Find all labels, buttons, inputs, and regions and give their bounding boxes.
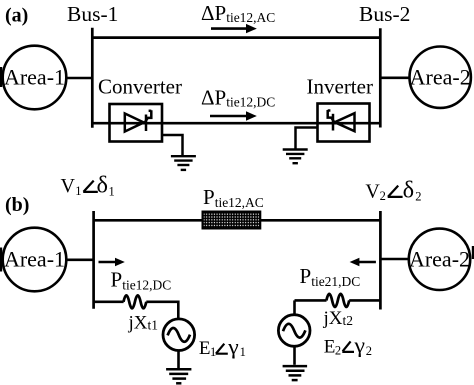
svg-text:Bus-2: Bus-2	[359, 2, 410, 26]
wire DC branch left (b)	[94, 300, 124, 303]
svg-text:1: 1	[240, 345, 246, 359]
edge tick left (a)	[0, 67, 2, 87]
inverter box	[318, 104, 370, 142]
AC source E2	[278, 315, 310, 347]
svg-text:γ: γ	[227, 334, 239, 359]
inductor jXt1	[124, 295, 147, 308]
svg-text:Area-1: Area-1	[4, 247, 65, 272]
arrow P tie21,DC	[350, 258, 376, 267]
AC source E1	[163, 319, 195, 351]
svg-text:1: 1	[75, 184, 81, 198]
ground E2	[283, 366, 308, 380]
wire DC branch right (b)	[295, 299, 327, 302]
svg-text:Bus-1: Bus-1	[67, 2, 118, 26]
svg-text:Inverter: Inverter	[307, 75, 373, 99]
wire inductor to E1	[146, 302, 178, 319]
generator Area-2 (b)	[409, 229, 470, 290]
arrow DC power flow (a)	[210, 111, 257, 120]
wire Area-1 to Bus-1 (a)	[66, 77, 93, 80]
edge tick right (b)	[472, 246, 474, 259]
svg-text:V: V	[365, 180, 380, 202]
svg-text:Area-1: Area-1	[4, 65, 65, 90]
bus bar V1 (b)	[92, 211, 95, 309]
generator Area-1 (b)	[3, 228, 67, 292]
svg-text:V: V	[61, 175, 76, 197]
svg-text:E: E	[324, 336, 336, 357]
wire DC link (a)	[92, 122, 380, 125]
generator Area-2 (a)	[410, 46, 471, 107]
wire AC tie line (b)	[94, 219, 381, 222]
bus bar Bus-2	[379, 28, 382, 127]
generator Area-1 (a)	[3, 46, 67, 110]
svg-text:Area-2: Area-2	[409, 247, 470, 272]
svg-text:E: E	[199, 338, 211, 359]
svg-text:δ: δ	[97, 173, 109, 199]
svg-text:1: 1	[109, 185, 115, 199]
ground inverter	[283, 150, 308, 164]
edge tick left (b)	[0, 248, 2, 272]
bus bar V2 (b)	[379, 211, 382, 310]
wire Area-2 to bus (b)	[380, 258, 409, 261]
svg-text:2: 2	[335, 343, 341, 357]
thyristor inverter	[328, 110, 355, 131]
svg-text:2: 2	[366, 344, 372, 358]
svg-text:γ: γ	[353, 332, 365, 357]
ground converter	[171, 156, 196, 170]
inductor jXt2	[326, 294, 349, 307]
wire inverter ground tap	[296, 128, 318, 149]
wire AC tie line (a)	[92, 36, 380, 39]
wire tap to E2	[293, 300, 296, 314]
svg-text:δ: δ	[403, 178, 415, 204]
label E2 angle gamma2	[324, 332, 372, 358]
wire Area-1 to bus (b)	[66, 258, 94, 261]
arrow AC power flow (a)	[211, 24, 257, 33]
wire inductor to bus V2	[349, 299, 380, 302]
svg-text:2: 2	[380, 189, 386, 203]
wire E1 to ground	[177, 351, 180, 369]
label E1 angle gamma1	[199, 334, 246, 359]
svg-text:(a): (a)	[5, 5, 28, 27]
wire E2 to ground	[293, 346, 296, 365]
svg-text:2: 2	[415, 189, 421, 203]
svg-text:Converter: Converter	[98, 75, 182, 99]
converter box	[110, 104, 163, 142]
svg-text:Area-2: Area-2	[410, 64, 471, 89]
AC tie line impedance block (hatched)	[203, 212, 261, 229]
bus bar Bus-1	[91, 28, 94, 128]
label V1 angle delta1	[61, 173, 115, 199]
label V2 angle delta2	[365, 178, 421, 204]
thyristor converter	[125, 110, 152, 131]
wire Area-2 to Bus-2 (a)	[380, 77, 409, 80]
svg-text:1: 1	[210, 345, 216, 359]
arrow P tie12,DC	[99, 258, 125, 267]
wire converter ground tap	[162, 135, 183, 156]
ground E1	[166, 369, 191, 383]
svg-text:(b): (b)	[5, 194, 29, 216]
